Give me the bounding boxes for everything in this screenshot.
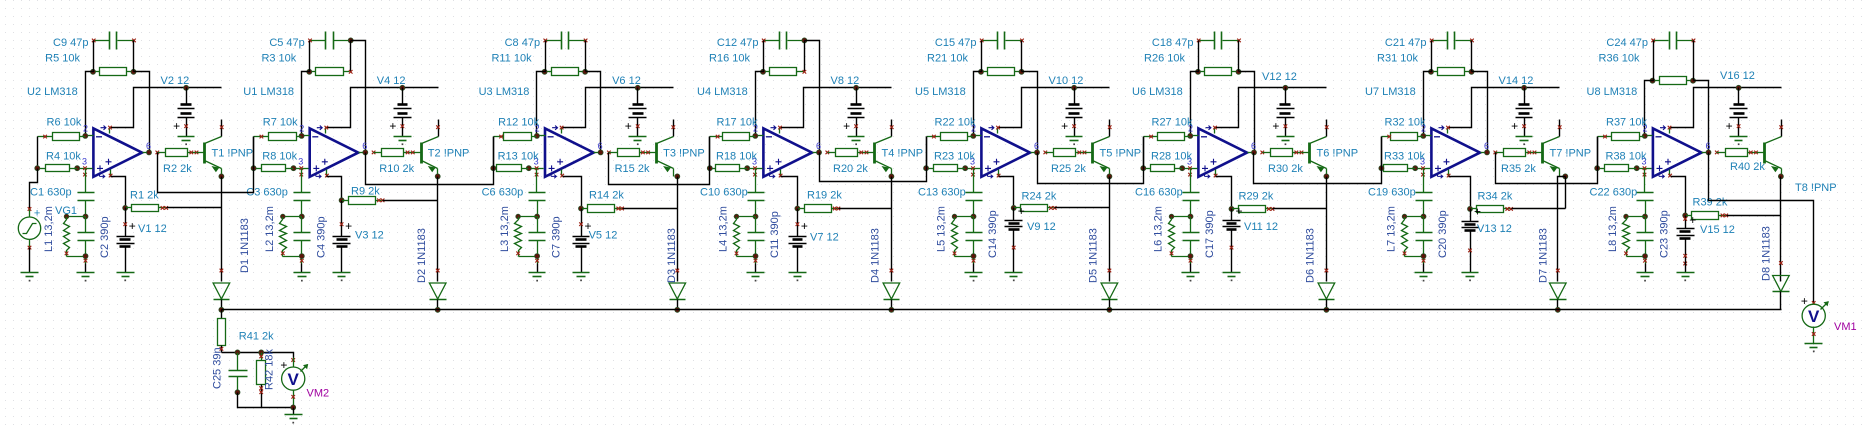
battery V10 (V10 12) [1061,88,1082,137]
svg-text:D1 1N1183: D1 1N1183 [239,218,251,273]
node emitter [1324,174,1329,179]
transistor T5 (PNP) [1085,120,1112,177]
node feedback-right [1691,78,1696,83]
svg-text:L1 13,2m: L1 13,2m [43,206,55,252]
svg-text:L5 13,2m: L5 13,2m [936,206,948,252]
svg-text:R6 10k: R6 10k [47,117,82,129]
svg-text:V2 12: V2 12 [161,75,190,87]
wire cap/res left to inverting input [1424,41,1432,136]
capacitor C17 (C17 390p) [1183,217,1200,264]
wire coupling stage 2 to stage 3 [366,137,494,185]
node diode-bus [889,307,894,312]
battery V1 (V1 12) [117,208,136,262]
svg-text:R12 10k: R12 10k [498,117,539,129]
node input [1595,166,1600,171]
capacitor C11 (C11 390p) [748,217,765,264]
node output [147,150,152,155]
svg-text:+: + [625,119,632,133]
wire op-amp pin7 to V+ rail [563,88,674,128]
wire input column [493,137,495,169]
node noninverting input [526,166,531,171]
wire cap right [585,41,587,72]
ground of V8 [848,137,865,146]
battery V16 (V16 12) [1726,88,1748,137]
op-amp U2 (U2 LM318) [78,126,150,179]
node tank top [83,214,88,219]
svg-text:VM1: VM1 [1834,321,1857,333]
svg-text:C20 390p: C20 390p [1437,210,1449,258]
svg-text:L4 13,2m: L4 13,2m [718,206,730,252]
svg-text:R27 10k: R27 10k [1152,117,1193,129]
node tank top [535,214,540,219]
node R row [579,206,584,211]
svg-text:R9 2k: R9 2k [351,186,380,198]
transistor T2 (PNP) [414,120,440,177]
ground of V1 [117,262,135,282]
wire cap/res left to inverting input [537,41,546,136]
ground of tank [529,264,546,282]
wire coupling stage 6 to stage 7 [1254,137,1382,184]
svg-text:+: + [1726,119,1733,133]
resistor R18 (R18 10k) [710,165,748,172]
svg-text:6: 6 [1034,141,1039,151]
ground of V5 [573,262,590,282]
svg-text:U3 LM318: U3 LM318 [479,86,530,98]
svg-text:C13 630p: C13 630p [918,186,966,198]
node V+ rail [635,85,640,90]
wire input column [253,137,255,169]
svg-text:C9 47p: C9 47p [53,37,88,49]
capacitor C12 (C12 47p) [762,32,805,50]
svg-text:R28 10k: R28 10k [1151,151,1192,163]
svg-text:D6 1N1183: D6 1N1183 [1305,228,1317,283]
svg-text:+: + [173,119,180,133]
svg-text:R29 2k: R29 2k [1239,191,1274,203]
svg-text:R5 10k: R5 10k [45,53,80,65]
wire pin5 to R row [781,177,798,209]
svg-text:R35 2k: R35 2k [1501,163,1536,175]
op-amp U5 (U5 LM318) [966,126,1038,179]
node noninverting input [1180,166,1185,171]
resistor R23 (R23 10k) [927,165,966,172]
svg-text:L2 13,2m: L2 13,2m [264,206,276,252]
node R row [795,206,800,211]
capacitor C18 (C18 47p) [1197,32,1241,50]
svg-text:C17 390p: C17 390p [1204,210,1216,258]
resistor R16 (R16 10k) [764,68,804,76]
wire emitter to diode [677,177,679,282]
node tank bottom [299,254,304,259]
resistor R40 (R40 2k) [1717,149,1758,157]
inductor L6 (L6 13,2m) [1169,214,1191,256]
node emitter [1563,174,1568,179]
node emitter [889,174,894,179]
battery V5 (V5 12) [573,209,592,262]
resistor R25 (R25 2k) [1046,149,1087,157]
svg-text:R42 18k: R42 18k [264,349,276,390]
svg-text:C24 47p: C24 47p [1606,37,1648,49]
node R row [1468,206,1473,211]
capacitor C2 (C2 390p) [78,217,95,264]
resistor R5 (R5 10k) [94,68,134,76]
transistor T4 (PNP) [867,120,894,177]
ground of V14 [1516,137,1533,146]
node tank bottom [535,254,540,259]
svg-text:L6 13,2m: L6 13,2m [1153,206,1165,252]
wire input column [926,137,928,169]
wire R row to emitter column [167,207,222,209]
resistor R32 (R32 10k) [1382,133,1424,141]
wire cap right [133,41,135,72]
svg-text:U4 LM318: U4 LM318 [697,86,748,98]
node feedback-left [1196,69,1201,74]
inductor L1 (L1 13,2m) [64,214,86,256]
wire feedback to output node [1694,81,1709,153]
capacitor C7 (C7 390p) [529,217,546,264]
node feedback-right [1019,69,1024,74]
wire op-amp pin7 to V+ rail [781,88,892,128]
node V+ rail [184,85,189,90]
svg-text:V5 12: V5 12 [589,230,618,242]
node tank top [299,214,304,219]
wire op-amp pin7 to V+ rail [1449,88,1560,128]
battery V7 (V7 12) [789,209,808,262]
svg-text:V13 12: V13 12 [1477,223,1512,235]
resistor R11 (R11 10k) [546,68,586,76]
wire R row to emitter column [839,208,892,210]
node output [598,150,603,155]
node feedback-right [131,69,136,74]
node V+ rail [1072,85,1077,90]
wire emitter to diode [221,177,223,282]
wire cap/res left to inverting input [1645,41,1654,136]
node inverting input [83,133,88,138]
battery V9 (V9 12) [1005,204,1025,262]
op-amp U4 (U4 LM318) [748,126,820,179]
svg-text:C6 630p: C6 630p [482,186,524,198]
svg-text:R14 2k: R14 2k [589,190,624,202]
resistor R35 (R35 2k) [1496,149,1537,157]
svg-text:D5 1N1183: D5 1N1183 [1088,228,1100,283]
svg-text:C18 47p: C18 47p [1152,37,1194,49]
wire emitter to diode [437,177,439,282]
svg-text:+: + [1272,119,1279,133]
svg-text:2: 2 [83,124,88,134]
ground of tank [1182,264,1200,282]
wire coupling stage 4 to stage 5 [820,137,927,182]
svg-text:C14 390p: C14 390p [987,210,999,258]
svg-text:U8 LM318: U8 LM318 [1587,86,1638,98]
diode D8 (D8 1N1183) [1773,261,1790,309]
node emitter [1107,174,1112,179]
svg-text:3: 3 [82,157,87,167]
node input [251,166,256,171]
svg-text:3: 3 [298,157,303,167]
node feedback-left [1650,78,1655,83]
wire output to VM1 [1709,153,1814,304]
svg-text:R13 10k: R13 10k [498,151,539,163]
node feedback-right [1469,69,1474,74]
svg-text:V8 12: V8 12 [831,75,860,87]
svg-text:R20 2k: R20 2k [833,163,868,175]
battery V4 (V4 12) [389,88,411,137]
wire emitter to diode [1780,177,1782,282]
wire feedback to output node [1239,72,1255,153]
svg-text:T8 !PNP: T8 !PNP [1795,182,1837,194]
node emitter [435,174,440,179]
inductor L3 (L3 13,2m) [515,214,538,256]
node tank bottom [1188,254,1193,259]
node output [1485,150,1490,155]
node output [1706,150,1711,155]
node tank top [753,214,758,219]
inductor L7 (L7 13,2m) [1402,214,1424,256]
node feedback-right [1236,69,1241,74]
wire emitter jog to diode [1558,177,1566,282]
node tank bottom [1421,254,1426,259]
node inverting input [299,133,304,138]
svg-text:L7 13,2m: L7 13,2m [1386,206,1398,252]
resistor R2 (R2 2k) [158,149,199,157]
battery V14 (V14 12) [1511,88,1532,137]
svg-text:C2 390p: C2 390p [99,216,111,258]
diode D4 (D4 1N1183) [883,269,900,310]
svg-text:D2 1N1183: D2 1N1183 [416,228,428,283]
svg-text:R17 10k: R17 10k [717,117,758,129]
svg-text:R11 10k: R11 10k [491,53,532,65]
wire cap right to res [804,41,806,72]
wire input column [1597,137,1599,169]
resistor R33 (R33 10k) [1382,165,1416,172]
resistor R4 (R4 10k) [38,165,78,172]
voltmeter VM1 [1801,294,1829,344]
capacitor C1 (C1 630p) [78,169,95,217]
resistor R8 (R8 10k) [254,165,294,172]
battery V8 (V8 12) [843,88,864,137]
op-amp U6 (U6 LM318) [1183,126,1255,179]
node inverting input [1642,133,1647,138]
svg-text:R32 10k: R32 10k [1385,117,1426,129]
node cap-right [348,38,353,43]
wire feedback to output node [586,72,601,153]
wire R row to emitter column [1055,207,1110,209]
wire coupling stage 3 to stage 4 [609,137,710,185]
ground of V11 [1223,262,1241,282]
transistor T7 (PNP) [1535,120,1562,177]
resistor R24 (R24 2k) [1014,205,1057,212]
inductor L4 (L4 13,2m) [734,214,756,256]
wire pin5 to R row [1671,177,1686,216]
svg-text:V1 12: V1 12 [138,223,167,235]
node feedback-left [542,69,547,74]
resistor R17 (R17 10k) [710,133,756,141]
svg-text:C8 47p: C8 47p [505,37,540,49]
svg-text:C22 630p: C22 630p [1590,186,1638,198]
svg-text:+: + [1801,294,1808,308]
ground of V13 [1462,262,1479,282]
node diode-bus [1107,307,1112,312]
wire R row to emitter column [1273,208,1327,210]
svg-text:D8 1N1183: D8 1N1183 [1761,226,1773,281]
node diode-bus [435,307,440,312]
wire emitter branch to R row [1565,177,1567,209]
node tank top [1643,214,1648,219]
resistor R39 (R39 2k) [1686,212,1729,220]
node inverting input [1421,133,1426,138]
node diode-bus [675,307,680,312]
capacitor C13 (C13 630p) [966,169,983,217]
svg-text:C19 630p: C19 630p [1368,186,1416,198]
battery V11 (V11 12) [1223,204,1243,262]
svg-text:+: + [1018,204,1025,218]
node input [35,166,40,171]
svg-text:+: + [843,119,850,133]
wire feedback to output node [134,72,150,153]
wire feedback to output node [805,41,820,153]
transistor T1 (PNP) [197,120,224,177]
node diode-bus [1555,307,1560,312]
svg-text:R3 10k: R3 10k [261,53,296,65]
svg-text:V6 12: V6 12 [612,75,641,87]
svg-text:+: + [1474,205,1481,219]
node tank bottom [753,254,758,259]
svg-text:6: 6 [146,141,151,151]
svg-text:C10 630p: C10 630p [700,186,748,198]
op-amp U8 (U8 LM318) [1637,126,1709,179]
transistor T8 (PNP) [1757,120,1784,177]
capacitor C3 (C3 630p) [294,169,311,217]
capacitor C25 (C25 39n) [229,353,248,393]
svg-text:R40 2k: R40 2k [1730,161,1765,173]
svg-text:6: 6 [1706,141,1711,151]
node noninverting input [963,166,968,171]
wire cap/res left to inverting input [302,41,310,136]
node feedback-left [761,69,766,74]
battery V6 (V6 12) [625,88,647,137]
op-amp U7 (U7 LM318) [1416,126,1488,179]
node C25 bottom [235,390,240,395]
svg-text:R10 2k: R10 2k [379,163,414,175]
svg-text:6: 6 [362,141,367,151]
node R row [339,198,344,203]
svg-text:U5 LM318: U5 LM318 [915,86,966,98]
ground of V15 [1677,262,1695,282]
diode D3 (D3 1N1183) [669,269,686,310]
node feedback-left [979,69,984,74]
op-amp U1 (U1 LM318) [294,126,366,179]
wire pin5 to R row [999,177,1014,208]
node tank bottom [971,254,976,259]
svg-text:R1 2k: R1 2k [130,190,159,202]
svg-text:R23 10k: R23 10k [934,151,975,163]
svg-text:+: + [1236,204,1243,218]
svg-text:U7 LM318: U7 LM318 [1365,86,1416,98]
capacitor C16 (C16 630p) [1183,169,1200,217]
wire cap/res left to inverting input [1191,41,1199,136]
wire coupling stage 1 to stage 2 [158,137,254,193]
svg-text:R39 2k: R39 2k [1693,197,1728,209]
svg-text:6: 6 [598,141,603,151]
resistor R20 (R20 2k) [828,149,869,157]
node input [1141,166,1146,171]
svg-text:V: V [1808,307,1820,326]
resistor R36 (R36 10k) [1653,77,1694,85]
svg-text:D3 1N1183: D3 1N1183 [666,228,678,283]
inductor L8 (L8 13,2m) [1623,214,1646,256]
ground of tank [294,264,311,282]
svg-text:2: 2 [299,124,304,134]
svg-text:R24 2k: R24 2k [1022,191,1057,203]
node emitter [675,174,680,179]
resistor R1 (R1 2k) [126,205,169,212]
resistor R22 (R22 10k) [927,133,974,141]
node inverting input [1188,133,1193,138]
node V+ rail [854,85,859,90]
svg-text:C21 47p: C21 47p [1385,37,1427,49]
wire emitter to diode [1109,177,1111,282]
node VM2 bottom [291,405,296,410]
node noninverting input [1634,166,1639,171]
ground of V12 [1277,137,1295,146]
wire emitter to diode [1326,177,1328,282]
wire op-amp pin7 to V+ rail [1671,88,1782,128]
wire cap right [1471,41,1473,72]
battery V15 (V15 12) [1677,213,1697,265]
node V+ rail [1736,85,1741,90]
wire cap right [1693,41,1695,81]
resistor R37 (R37 10k) [1598,133,1645,141]
ground of tank [965,264,983,282]
resistor R28 (R28 10k) [1144,165,1183,172]
node output [817,150,822,155]
node tank top [971,214,976,219]
node inverting input [971,133,976,138]
wire op-amp pin7 to V+ rail [111,88,222,128]
capacitor C21 (C21 47p) [1430,32,1474,50]
svg-text:V10 12: V10 12 [1049,75,1084,87]
svg-text:R15 2k: R15 2k [615,163,650,175]
node feedback-left [307,69,312,74]
ground of V6 [629,137,647,146]
resistor R31 (R31 10k) [1432,68,1472,76]
node feedback-right [583,69,588,74]
resistor R9 (R9 2k) [342,197,385,205]
diode D6 (D6 1N1183) [1318,269,1335,310]
svg-text:R21 10k: R21 10k [927,53,968,65]
wire coupling stage 7 to stage 8 [1496,137,1598,184]
svg-text:T5 !PNP: T5 !PNP [1100,147,1142,159]
ground of V4 [394,137,412,146]
svg-text:V9 12: V9 12 [1027,221,1056,233]
ground of VM2 [285,408,303,424]
svg-text:V11 12: V11 12 [1244,221,1278,233]
wire bottom-left rail [238,393,294,408]
wire R row to emitter column [1727,215,1781,217]
diode D2 (D2 1N1183) [429,269,446,310]
svg-text:VM2: VM2 [307,388,330,400]
wire cap right [1021,41,1023,72]
svg-text:R41 2k: R41 2k [239,331,274,343]
svg-text:R22 10k: R22 10k [935,117,976,129]
svg-text:T6 !PNP: T6 !PNP [1317,147,1359,159]
svg-text:V: V [288,370,300,389]
node cap-right [802,38,807,43]
wire op-amp pin7 to V+ rail [1216,88,1327,128]
svg-text:6: 6 [816,141,821,151]
svg-text:+: + [129,219,136,233]
resistor R42 (R42 18k) [257,353,266,408]
capacitor C20 (C20 390p) [1416,217,1433,264]
